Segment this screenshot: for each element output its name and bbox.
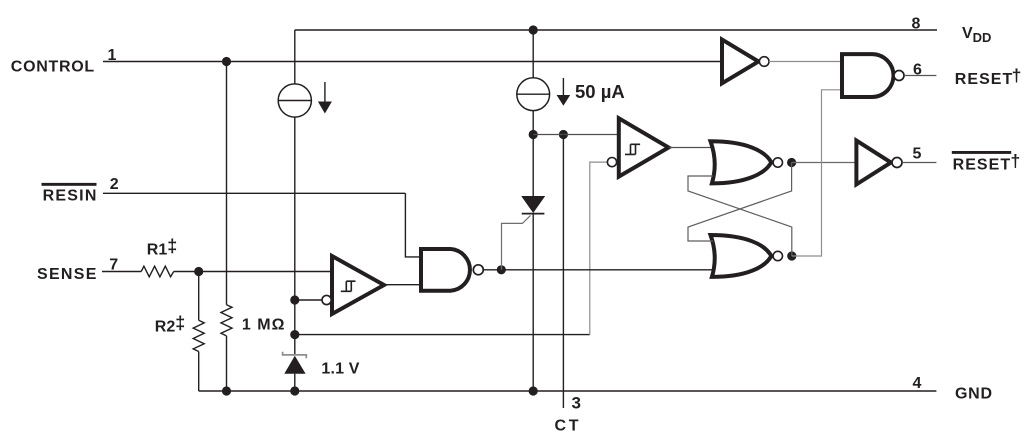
svg-text:1: 1 xyxy=(108,47,117,64)
wire I2 output down to thyristor anode xyxy=(532,111,534,196)
inverter U4 xyxy=(722,40,759,84)
resistor R2 xyxy=(193,320,204,351)
node SENSE junction xyxy=(194,267,203,276)
current source I1 xyxy=(278,84,311,117)
node Q1 ground junction xyxy=(529,386,538,395)
inverter U5 xyxy=(856,141,891,185)
wire SENSE to schmitt U3 xyxy=(174,271,332,273)
svg-text:CONTROL: CONTROL xyxy=(11,58,95,75)
wire CT vertical to pin 3 xyxy=(562,135,564,409)
nor gate G4 xyxy=(711,235,772,277)
svg-text:50 µA: 50 µA xyxy=(575,81,625,102)
wire U3 bubble to reference node xyxy=(295,299,322,301)
wire U3 output to nand G1 xyxy=(384,284,421,286)
svg-text:†: † xyxy=(1012,65,1022,85)
cross-coupling wire G3 output to G4 input xyxy=(688,163,792,242)
svg-text:3: 3 xyxy=(572,394,581,413)
svg-text:GND: GND xyxy=(955,386,992,403)
node D1 ground junction xyxy=(290,386,299,395)
wire VDD rail xyxy=(295,29,937,31)
svg-text:VDD: VDD xyxy=(962,25,991,45)
nand gate G2 xyxy=(842,54,893,97)
svg-text:R2‡: R2‡ xyxy=(155,313,185,336)
wire R3 to ground rail xyxy=(226,336,228,391)
pin 1 lead xyxy=(103,61,227,63)
svg-text:7: 7 xyxy=(109,256,118,273)
output bubble G2 xyxy=(894,71,904,81)
node reference to schmitt U3 bubble xyxy=(290,295,299,304)
svg-text:1 MΩ: 1 MΩ xyxy=(242,316,285,333)
wire Q1 cathode to ground rail xyxy=(532,214,534,391)
nor gate G3 xyxy=(711,141,772,183)
wire G3 output to inverter U5 xyxy=(792,162,857,164)
svg-text:RESET: RESET xyxy=(953,156,1011,173)
wire VDD drop to current source I2 xyxy=(532,30,534,78)
node G4 output junction xyxy=(787,251,796,260)
node CT charge junction xyxy=(529,130,538,139)
svg-text:RESIN: RESIN xyxy=(43,187,97,204)
output bubble G3 xyxy=(773,158,782,167)
node CT tap junction xyxy=(559,130,568,139)
wire ground rail xyxy=(199,390,937,392)
schmitt trigger U3 xyxy=(332,256,384,314)
wire R2 to ground rail xyxy=(198,352,200,392)
svg-text:8: 8 xyxy=(912,16,921,33)
svg-text:6: 6 xyxy=(913,62,922,79)
cross-coupling wire G4 output to G3 input xyxy=(688,176,792,256)
svg-text:4: 4 xyxy=(913,375,922,392)
label RESET-bar overline xyxy=(952,151,1011,154)
resistor R1 xyxy=(141,266,174,277)
pin 7 lead xyxy=(102,271,141,273)
input bubble U6 xyxy=(607,158,616,167)
node CONTROL junction xyxy=(222,57,231,66)
node reference to schmitt U6 bubble xyxy=(290,330,299,339)
svg-text:SENSE: SENSE xyxy=(37,266,97,283)
wire CONTROL bus to inverter U4 xyxy=(227,61,723,63)
arrow for I1 xyxy=(318,82,332,114)
pin 2 lead xyxy=(103,192,405,194)
wire VDD drop to current source I1 xyxy=(294,30,296,84)
node thyristor gate junction xyxy=(497,265,506,274)
output bubble U4 xyxy=(759,57,769,67)
svg-text:RESET: RESET xyxy=(955,71,1013,88)
output bubble U5 xyxy=(892,158,902,168)
svg-text:1.1 V: 1.1 V xyxy=(321,361,359,378)
svg-text:†: † xyxy=(1011,151,1021,171)
wire G4 output to nand G2 xyxy=(792,90,842,256)
arrow for I2 xyxy=(557,78,571,106)
wire G1 output to nor G4 xyxy=(484,269,713,271)
output bubble G4 xyxy=(773,251,782,260)
node VDD junction xyxy=(529,25,538,34)
current source I2 xyxy=(517,78,550,111)
resistor R3 1 Mohm xyxy=(221,305,232,336)
wire I1 output down to reference node xyxy=(294,117,296,355)
svg-text:5: 5 xyxy=(913,146,922,163)
zener diode D1 1.1 V xyxy=(283,352,307,391)
node R3 ground junction xyxy=(222,386,231,395)
wire CONTROL down to resistor R3 xyxy=(226,62,228,305)
svg-text:CT: CT xyxy=(555,418,579,435)
schmitt trigger U6 xyxy=(619,118,669,176)
wire reference node to schmitt U6 bubble xyxy=(295,334,590,336)
svg-text:R1‡: R1‡ xyxy=(147,236,177,259)
wire CT node to schmitt U6 input xyxy=(533,134,619,136)
output bubble G1 xyxy=(473,265,483,275)
thyristor Q1 xyxy=(502,196,546,270)
label RESIN overline xyxy=(42,183,97,186)
pin 5 lead xyxy=(902,162,936,164)
hysteresis symbol U3 xyxy=(341,281,356,291)
pin 6 lead xyxy=(904,75,936,77)
wire RESIN down to nand G1 xyxy=(405,193,421,257)
hysteresis symbol U6 xyxy=(625,144,640,154)
nand gate G1 xyxy=(421,249,470,291)
wire SENSE node down to resistor R2 xyxy=(198,272,200,321)
node G3 output junction xyxy=(787,158,796,167)
wire U4 output to nand G2 xyxy=(769,61,842,63)
svg-text:2: 2 xyxy=(110,176,119,193)
input bubble U3 xyxy=(322,295,331,304)
wire U6 output to nor G3 xyxy=(669,147,714,149)
